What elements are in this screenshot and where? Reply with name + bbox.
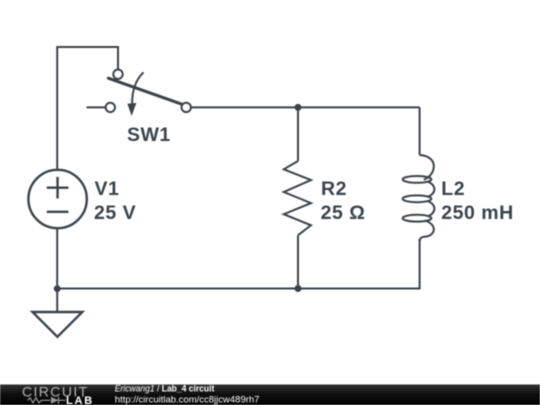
wire resistor top lead xyxy=(297,107,299,161)
V1 minus sign xyxy=(47,211,69,213)
svg-text:V1: V1 xyxy=(95,178,120,200)
node junction dot bottom-left xyxy=(54,285,61,292)
switch SW1 xyxy=(106,70,191,117)
wire inductor bottom lead and bottom rail xyxy=(57,239,419,289)
switch actuation arc arrow xyxy=(132,72,143,104)
wire top-left from V1 up and over to switch pole xyxy=(57,47,118,169)
svg-text:http://circuitlab.com/cc8jjcw4: http://circuitlab.com/cc8jjcw489rh7 xyxy=(115,394,260,405)
resistor R2 zigzag xyxy=(284,161,311,235)
logo resistor zigzag and diode symbol xyxy=(28,397,66,404)
switch pole contact circle xyxy=(113,70,122,79)
switch left throw contact circle xyxy=(106,103,115,112)
switch blade xyxy=(108,78,181,104)
node junction dot resistor bottom xyxy=(295,285,302,292)
svg-text:SW1: SW1 xyxy=(127,124,171,146)
labels xyxy=(94,124,514,224)
svg-text:25 Ω: 25 Ω xyxy=(321,202,366,224)
inductor L2 coil xyxy=(403,155,435,241)
svg-text:Ericwang1 / Lab_4 circuit: Ericwang1 / Lab_4 circuit xyxy=(115,383,215,394)
node junction dot resistor top xyxy=(295,104,302,111)
V1 plus sign xyxy=(47,177,69,199)
ground xyxy=(33,312,83,337)
svg-text:250 mH: 250 mH xyxy=(441,202,513,224)
wire inductor top lead xyxy=(419,107,421,155)
svg-text:R2: R2 xyxy=(321,178,347,200)
wire top rail from switch right throw to inductor branch xyxy=(191,106,420,108)
svg-text:LAB: LAB xyxy=(66,395,94,405)
svg-text:25 V: 25 V xyxy=(94,202,136,224)
svg-text:L2: L2 xyxy=(441,178,465,200)
voltage source V1 xyxy=(28,170,86,228)
wire V1 bottom to ground xyxy=(56,229,58,312)
wire resistor bottom lead xyxy=(297,235,299,288)
wire left throw lead xyxy=(87,106,106,108)
switch right throw contact circle xyxy=(182,103,191,112)
